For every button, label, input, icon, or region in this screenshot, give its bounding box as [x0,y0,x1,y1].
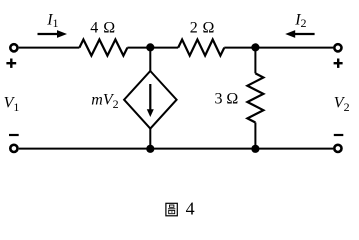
plus sign left [6,59,16,68]
wire from source to bottom rail [149,129,151,149]
svg-text:Ω: Ω [226,90,238,107]
svg-text:V1: V1 [4,95,20,114]
node B junction dot [251,43,259,51]
resistor R1 4Ω [79,40,127,56]
svg-text:I2: I2 [294,11,306,30]
wire from node B down to 3Ω [254,48,256,74]
wire between 2Ω and top-right terminal through node B [224,47,333,49]
wire from node A down to source [149,48,151,71]
svg-text:4: 4 [186,199,195,219]
terminal bottom-left [10,145,17,152]
svg-text:2: 2 [190,20,198,37]
svg-text:I1: I1 [46,11,58,30]
dependent current source U1 diamond [124,71,177,129]
svg-text:Ω: Ω [203,20,215,37]
bottom rail wire [19,148,334,150]
terminal bottom-right [334,145,341,152]
current arrow I1 [38,30,68,38]
svg-text:V2: V2 [334,95,350,114]
wire between 4Ω and 2Ω through node A [127,47,178,49]
plus sign right [334,59,343,68]
current arrow I2 [285,30,314,38]
wire top-left segment [19,47,80,49]
svg-text:mV2: mV2 [91,92,118,111]
terminal top-left [10,44,17,51]
wire from 3Ω to bottom rail [254,123,256,149]
node D junction dot [251,145,259,153]
svg-text:4: 4 [90,20,98,37]
arrow inside source U1 [147,84,154,117]
node A junction dot [146,43,154,51]
svg-text:3: 3 [215,90,223,107]
minus sign right [334,134,344,136]
resistor R2 2Ω [178,40,224,56]
terminal top-right [334,44,341,51]
caption glyph 圖 (drawn) [166,203,177,216]
svg-text:Ω: Ω [103,20,115,37]
node C junction dot [146,145,154,153]
minus sign left [9,134,19,136]
resistor R3 3Ω [247,73,263,122]
